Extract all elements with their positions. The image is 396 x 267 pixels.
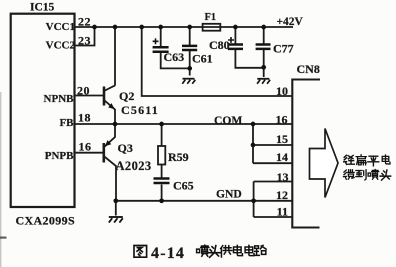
svg-text:A2023: A2023	[116, 159, 152, 173]
svg-text:Q2: Q2	[119, 89, 134, 103]
svg-text:C63: C63	[164, 50, 185, 64]
svg-text:VCC1: VCC1	[46, 21, 75, 33]
svg-text:VCC2: VCC2	[46, 40, 76, 52]
svg-text:16: 16	[276, 113, 288, 127]
svg-text:C77: C77	[273, 42, 294, 56]
svg-text:R59: R59	[168, 150, 189, 164]
svg-text:FB: FB	[59, 117, 74, 129]
svg-text:CXA2099S: CXA2099S	[16, 214, 75, 228]
svg-text:Q3: Q3	[118, 141, 133, 155]
svg-text:4-14: 4-14	[151, 245, 185, 262]
svg-text:11: 11	[277, 205, 288, 219]
svg-text:IC15: IC15	[30, 2, 55, 14]
svg-text:16: 16	[79, 140, 92, 154]
svg-text:10: 10	[276, 84, 288, 98]
svg-text:18: 18	[78, 111, 91, 125]
svg-text:C61: C61	[192, 52, 213, 66]
svg-text:12: 12	[276, 188, 288, 202]
svg-text:GND: GND	[216, 188, 242, 201]
svg-text:C5611: C5611	[121, 103, 159, 117]
svg-text:C80: C80	[209, 38, 230, 52]
svg-text:CN8: CN8	[297, 62, 320, 76]
svg-text:C65: C65	[173, 179, 194, 193]
svg-text:F1: F1	[205, 12, 217, 23]
svg-text:23: 23	[78, 34, 91, 48]
svg-text:14: 14	[276, 150, 288, 164]
svg-text:22: 22	[78, 15, 91, 29]
svg-text:+42V: +42V	[277, 16, 304, 28]
svg-text:20: 20	[77, 84, 90, 98]
svg-text:13: 13	[277, 170, 289, 184]
svg-text:COM: COM	[214, 114, 242, 127]
svg-text:NPNB: NPNB	[44, 93, 75, 105]
svg-text:PNPB: PNPB	[45, 150, 74, 162]
svg-text:15: 15	[276, 132, 288, 146]
